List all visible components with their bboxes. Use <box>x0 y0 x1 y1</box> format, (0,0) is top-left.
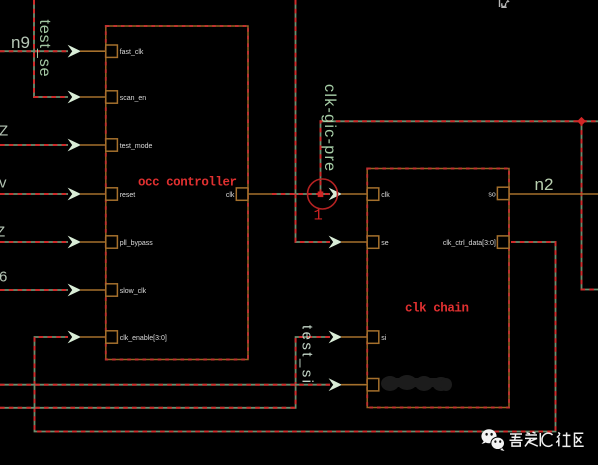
glyph wu <box>510 434 523 440</box>
wire net se vertical <box>296 0 331 242</box>
junction dot clk-gic-pre top <box>577 117 586 126</box>
glyph C <box>542 433 553 446</box>
svg-text:v: v <box>0 175 7 192</box>
olive stub pll_bypass <box>80 241 106 243</box>
arrow clk chain si <box>329 331 342 344</box>
wire net reset <box>0 193 68 195</box>
pin clk_ctrl_data[3:0] <box>497 236 509 248</box>
arrow test_mode <box>68 139 81 152</box>
wire net test_si <box>0 337 330 408</box>
svg-text:fast_clk: fast_clk <box>120 49 144 56</box>
pin clk of clk chain <box>367 188 379 200</box>
svg-text:Z: Z <box>0 123 8 140</box>
pin test_mode <box>106 139 118 151</box>
svg-text:se: se <box>381 240 389 247</box>
olive stub slow_clk <box>80 289 106 291</box>
arrow clk chain se <box>329 236 342 249</box>
arrow reset <box>68 188 81 201</box>
arrow pll_bypass <box>68 236 81 249</box>
censor blob over pin name <box>381 375 452 391</box>
wire net test_mode <box>0 144 68 146</box>
olive stub clk_enable <box>80 336 106 338</box>
svg-text:6: 6 <box>0 269 7 286</box>
svg-text:test_se: test_se <box>36 20 53 77</box>
pin clk_enable[3:0] <box>106 331 118 343</box>
wire net n9 fast_clk highlighted <box>0 50 68 52</box>
svg-text:reset: reset <box>120 192 136 199</box>
glyph ai <box>526 432 538 435</box>
wire net to censored pin <box>0 384 330 386</box>
wire net pll_bypass <box>0 241 68 243</box>
svg-text:clk chain: clk chain <box>405 302 469 316</box>
arrow scan_en <box>68 91 81 104</box>
pin censored bottom <box>367 379 379 391</box>
highlight circle around junction 1 <box>308 179 338 209</box>
watermark text 吾爱IC社区 <box>510 432 584 446</box>
svg-text:1: 1 <box>314 207 323 225</box>
svg-text:Z: Z <box>0 224 5 241</box>
svg-text:si: si <box>381 335 387 342</box>
pin slow_clk <box>106 284 118 296</box>
svg-text:n9: n9 <box>11 33 30 52</box>
svg-text:test_si: test_si <box>299 325 316 383</box>
olive stub se <box>341 241 367 243</box>
block occ controller outline <box>106 26 248 360</box>
wire net test_se vertical + scan_en branch <box>34 0 68 97</box>
arrow clk_enable <box>68 331 81 344</box>
svg-text:scan_en: scan_en <box>120 95 147 102</box>
olive stub reset <box>80 193 106 195</box>
glyph she <box>556 432 560 446</box>
wire net clk-gic-pre <box>321 121 598 289</box>
arrow slow_clk <box>68 284 81 297</box>
pin fast_clk <box>106 45 118 57</box>
pin si <box>367 331 379 343</box>
arrow fast_clk <box>68 45 81 58</box>
watermark wechat icon <box>481 429 504 451</box>
pin pll_bypass <box>106 236 118 248</box>
wire net clk_enable clk_ctrl_data loop <box>35 242 556 432</box>
pin clk output of occ <box>236 188 248 200</box>
pin scan_en <box>106 91 118 103</box>
clipped gray mark top right <box>500 0 510 7</box>
olive stub test_mode <box>80 144 106 146</box>
wire net n2 so output <box>509 193 598 195</box>
olive stub scan_en <box>80 96 106 98</box>
svg-text:so: so <box>488 191 496 198</box>
olive stub clk chain clk <box>341 193 367 195</box>
svg-text:test_mode: test_mode <box>120 143 153 150</box>
olive stub fast_clk <box>80 50 106 52</box>
svg-text:clk: clk <box>381 192 390 199</box>
pin reset <box>106 188 118 200</box>
svg-text:pll_bypass: pll_bypass <box>120 240 154 247</box>
pin so <box>497 187 509 199</box>
arrow censored pin <box>329 378 342 391</box>
olive stub si <box>341 336 367 338</box>
olive stub censored pin <box>341 384 367 386</box>
wire net slow_clk <box>0 289 68 291</box>
glyph qu <box>575 433 584 446</box>
junction dot at circle <box>318 192 324 198</box>
svg-text:clk_ctrl_data[3:0]: clk_ctrl_data[3:0] <box>443 240 496 247</box>
svg-text:slow_clk: slow_clk <box>120 288 147 295</box>
svg-text:clk: clk <box>226 192 235 199</box>
pin se <box>367 236 379 248</box>
svg-text:occ controller: occ controller <box>138 176 237 190</box>
arrow clk chain clk <box>329 188 342 201</box>
glyph I <box>539 433 541 446</box>
svg-text:n2: n2 <box>535 175 554 194</box>
wire occ clk to clk chain clk <box>248 193 330 195</box>
block clk chain outline <box>367 169 509 408</box>
svg-text:clk_enable[3:0]: clk_enable[3:0] <box>120 335 167 342</box>
